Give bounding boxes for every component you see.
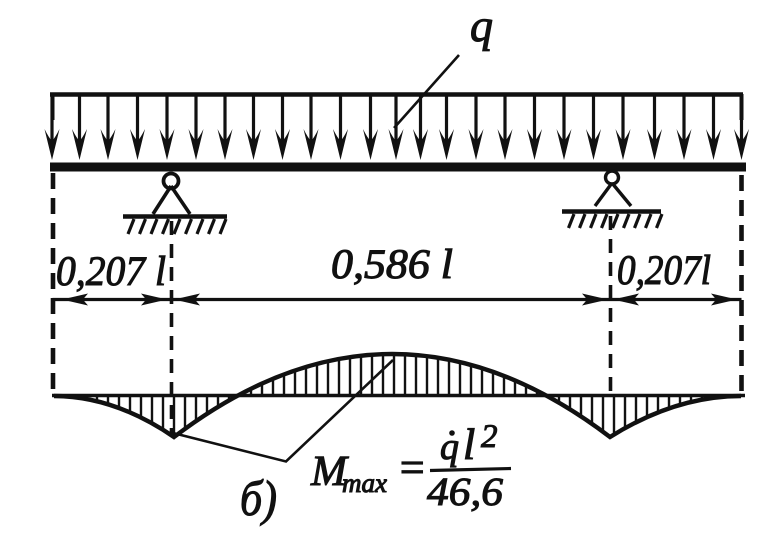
load left edge line bbox=[51, 94, 55, 120]
right edge dashed line bbox=[739, 175, 744, 392]
svg-text:2: 2 bbox=[481, 419, 498, 455]
svg-text:0,586 l: 0,586 l bbox=[331, 242, 453, 288]
fraction bar bbox=[430, 469, 511, 471]
distributed load top line bbox=[50, 92, 743, 97]
left support ground line bbox=[123, 214, 227, 219]
svg-text:q: q bbox=[470, 0, 493, 51]
right support ground line bbox=[562, 209, 661, 214]
svg-text:б): б) bbox=[240, 470, 277, 526]
q leader line bbox=[394, 55, 459, 128]
load arrows bbox=[45, 96, 750, 160]
left support ground hatching bbox=[128, 219, 226, 234]
load right edge line bbox=[740, 94, 744, 120]
svg-text:0,207l: 0,207l bbox=[617, 248, 711, 294]
left support triangle bbox=[153, 186, 190, 214]
svg-text:l: l bbox=[463, 420, 475, 469]
moment diagram baseline bbox=[52, 394, 745, 397]
Mmax leader line bbox=[173, 360, 393, 462]
beam bbox=[50, 163, 746, 172]
right support dashed line bbox=[609, 216, 613, 392]
svg-text:=: = bbox=[397, 443, 427, 492]
left edge dashed line bbox=[51, 173, 56, 394]
svg-text:0,207 l: 0,207 l bbox=[56, 249, 166, 295]
right support ground hatching bbox=[569, 214, 663, 228]
left support dashed line bbox=[170, 221, 174, 434]
moment diagram hatching bbox=[86, 355, 713, 436]
right support pin circle bbox=[606, 171, 619, 184]
right support triangle bbox=[595, 183, 631, 206]
dimension arrows right segment bbox=[613, 294, 639, 306]
svg-text:max: max bbox=[342, 468, 387, 498]
dimension arrows left segment bbox=[62, 294, 88, 306]
dimension line bbox=[53, 298, 742, 301]
left support pin circle bbox=[164, 174, 179, 189]
svg-text:46,6: 46,6 bbox=[427, 469, 503, 514]
dimension arrows middle segment bbox=[174, 294, 200, 306]
moment diagram curve bbox=[54, 354, 741, 437]
